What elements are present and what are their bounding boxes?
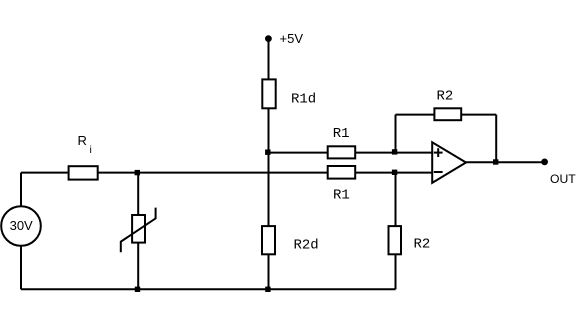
svg-text:R2: R2 xyxy=(437,88,454,104)
wire: feedback top horizontal through R2 xyxy=(396,114,497,116)
varistor RV1 diagonal stroke xyxy=(121,208,156,253)
terminal dot +5V xyxy=(265,35,272,42)
voltage source V1 body xyxy=(1,206,41,246)
junction varistor top xyxy=(135,170,140,175)
wire: R2 branch vertical from - line to bottom rail xyxy=(395,173,397,290)
wire: feedback left vertical up from + line xyxy=(395,115,397,153)
svg-text:30V: 30V xyxy=(10,218,33,233)
wire: feedback right vertical down to output xyxy=(495,115,497,163)
wire: +5V stub down to R1d xyxy=(268,42,270,86)
resistor Ri xyxy=(69,166,98,179)
svg-text:R: R xyxy=(78,133,87,148)
resistor R2 (vertical, to ground rail) xyxy=(389,226,402,254)
svg-text:OUT: OUT xyxy=(550,172,576,186)
wire: varistor branch vertical xyxy=(137,173,139,290)
resistor R1d xyxy=(262,79,275,108)
svg-text:R2: R2 xyxy=(414,237,431,253)
wire: R2d bottom to bottom rail xyxy=(268,250,270,289)
svg-text:+5V: +5V xyxy=(280,31,304,46)
wire: source bottom to bottom rail xyxy=(20,245,22,289)
resistor R2 (feedback) xyxy=(434,108,461,120)
junction R2 tap on - line xyxy=(392,170,397,175)
op-amp U1 plus sign xyxy=(434,152,443,154)
junction node A (+ tap on R1d branch) xyxy=(265,150,270,155)
resistor R1 (top, to + input) xyxy=(328,146,356,158)
resistor R1 (bottom, to - input) xyxy=(328,166,356,179)
junction feedback joins output xyxy=(493,159,498,164)
junction varistor bottom xyxy=(135,287,140,292)
junction R2d bottom xyxy=(265,287,270,292)
svg-text:R1d: R1d xyxy=(291,92,316,108)
resistor R2d xyxy=(262,226,275,254)
junction feedback tap on + line xyxy=(392,149,397,154)
svg-text:R2d: R2d xyxy=(294,237,319,253)
op-amp U1 minus sign xyxy=(434,171,443,173)
wire: bottom rail xyxy=(21,288,396,290)
svg-text:R1: R1 xyxy=(333,188,350,204)
wire: noninverting input line from node A to op-amp xyxy=(269,152,433,154)
terminal dot OUT xyxy=(541,159,548,166)
varistor RV1 body xyxy=(132,215,145,243)
wire: R1d bottom down through node A and crossover to R2d top xyxy=(268,103,270,230)
wire: output line from op-amp to OUT terminal xyxy=(466,161,545,163)
wire: left branch, rail to source top xyxy=(20,173,22,207)
wire: top rail from left branch to op-amp inverting input xyxy=(21,172,433,174)
svg-text:i: i xyxy=(90,144,92,156)
svg-text:R1: R1 xyxy=(333,126,350,142)
op-amp U1 body xyxy=(432,142,466,183)
